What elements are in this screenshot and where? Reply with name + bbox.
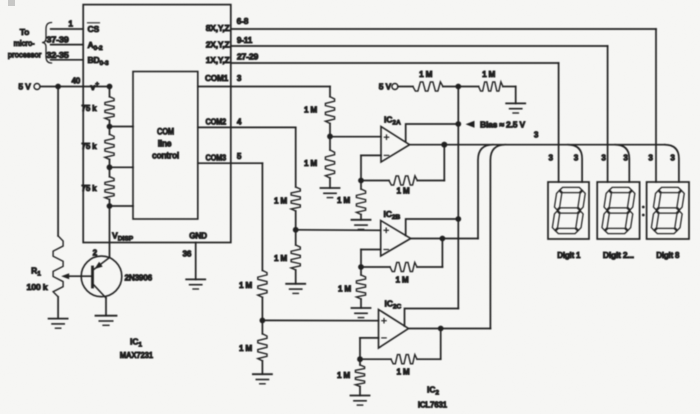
svg-text:1 M: 1 M xyxy=(239,344,252,353)
svg-text:27-29: 27-29 xyxy=(237,53,259,62)
svg-text:4: 4 xyxy=(237,118,242,127)
svg-text:1 M: 1 M xyxy=(482,70,495,79)
svg-text:8X,Y,Z: 8X,Y,Z xyxy=(206,24,230,33)
svg-text:1 M: 1 M xyxy=(337,371,350,380)
svg-text:3: 3 xyxy=(648,154,653,163)
svg-text:5: 5 xyxy=(237,152,242,161)
svg-text:3: 3 xyxy=(670,154,675,163)
svg-text:3: 3 xyxy=(237,74,242,83)
svg-text:5 V: 5 V xyxy=(379,82,392,92)
svg-text:COM3: COM3 xyxy=(206,153,227,162)
svg-text:75 k: 75 k xyxy=(82,104,98,113)
svg-text:9-11: 9-11 xyxy=(237,36,253,45)
svg-text:37-39: 37-39 xyxy=(46,36,69,45)
svg-text:MAX7231: MAX7231 xyxy=(120,350,153,360)
svg-text:1 M: 1 M xyxy=(304,159,317,168)
svg-text:1 M: 1 M xyxy=(396,187,409,196)
svg-text:1 M: 1 M xyxy=(274,254,287,263)
svg-text:processor: processor xyxy=(8,50,42,60)
svg-text:COM1: COM1 xyxy=(205,74,229,83)
svg-text:1 M: 1 M xyxy=(274,197,287,206)
svg-text:Digit 2...: Digit 2... xyxy=(603,250,634,260)
svg-text:32-35: 32-35 xyxy=(46,51,69,60)
svg-text:1 M: 1 M xyxy=(337,196,350,205)
svg-text:Digit 8: Digit 8 xyxy=(656,250,680,260)
svg-text:CS: CS xyxy=(88,24,100,34)
svg-text:Digit 1: Digit 1 xyxy=(557,250,581,260)
svg-text:1X,Y,Z: 1X,Y,Z xyxy=(206,56,230,65)
svg-text:6-8: 6-8 xyxy=(237,17,249,26)
svg-text:75 k: 75 k xyxy=(82,142,98,151)
svg-text:3: 3 xyxy=(623,154,628,163)
svg-text:1 M: 1 M xyxy=(304,106,317,115)
svg-text:36: 36 xyxy=(183,250,192,259)
svg-text:3: 3 xyxy=(534,131,539,140)
svg-text:Bias ≈ 2.5 V: Bias ≈ 2.5 V xyxy=(480,120,526,130)
svg-text:1 M: 1 M xyxy=(338,285,351,294)
svg-text:1: 1 xyxy=(68,20,73,29)
svg-text:1 M: 1 M xyxy=(419,70,432,79)
svg-text:3: 3 xyxy=(574,154,579,163)
svg-text:COM: COM xyxy=(157,127,174,137)
svg-text:To: To xyxy=(20,27,29,37)
svg-text:100 k: 100 k xyxy=(27,282,49,292)
svg-text:1 M: 1 M xyxy=(239,281,252,290)
svg-text:40: 40 xyxy=(71,77,80,86)
svg-text:ICL7631: ICL7631 xyxy=(418,400,447,410)
svg-text:micro-: micro- xyxy=(14,38,35,48)
svg-text:control: control xyxy=(152,151,179,161)
svg-text:3: 3 xyxy=(549,154,554,163)
svg-text:2X,Y,Z: 2X,Y,Z xyxy=(206,41,230,50)
svg-text:2N3906: 2N3906 xyxy=(125,273,153,283)
svg-text:1 M: 1 M xyxy=(395,276,408,285)
svg-text:1 M: 1 M xyxy=(396,368,409,377)
svg-text:GND: GND xyxy=(189,232,207,241)
svg-text:3: 3 xyxy=(601,154,606,163)
svg-text:line: line xyxy=(158,139,172,149)
svg-text:COM2: COM2 xyxy=(206,118,227,127)
svg-text:75 k: 75 k xyxy=(82,184,98,193)
svg-text:5 V: 5 V xyxy=(18,82,31,92)
